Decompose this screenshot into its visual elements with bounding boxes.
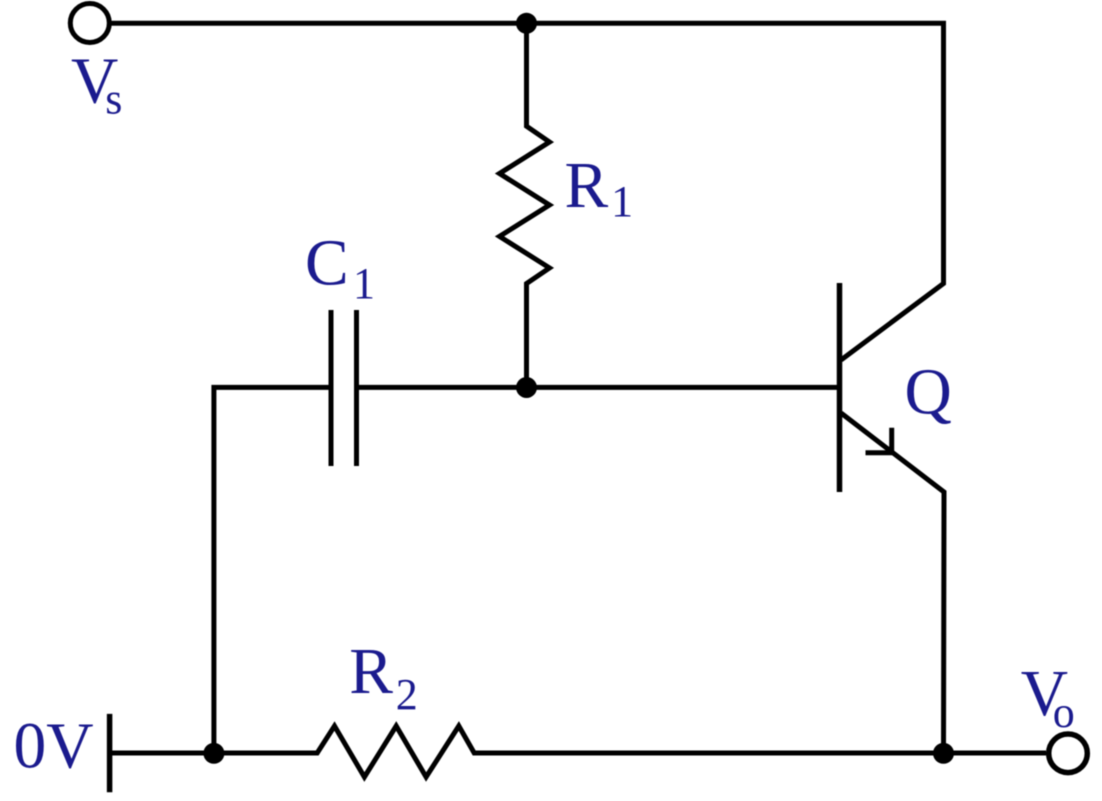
wire middle right (C1 right plate to Q base) bbox=[357, 385, 838, 390]
transistor Q emitter lead bbox=[841, 413, 944, 753]
wire bottom with resistor R2 bbox=[112, 726, 1046, 777]
ground terminal 0V bar bbox=[107, 714, 113, 792]
svg-text:o: o bbox=[1053, 688, 1075, 737]
label R1 bbox=[565, 150, 634, 226]
transistor Q base bar bbox=[837, 283, 843, 492]
svg-text:C: C bbox=[305, 228, 349, 300]
label Vo bbox=[1021, 658, 1075, 737]
junction dot bottom right (Vo node) bbox=[933, 743, 954, 764]
transistor Q collector lead bbox=[841, 23, 944, 360]
transistor Q emitter arrow bbox=[866, 428, 892, 453]
wire middle left (left vertical corner to C1 left plate) bbox=[214, 387, 331, 753]
svg-text:R: R bbox=[565, 150, 609, 222]
label R2 bbox=[349, 636, 417, 719]
label Vs bbox=[71, 45, 122, 123]
terminal Vo bbox=[1049, 734, 1088, 773]
svg-text:1: 1 bbox=[353, 259, 375, 308]
svg-text:R: R bbox=[349, 636, 393, 708]
wire top (Vs to collector corner) bbox=[112, 21, 947, 26]
capacitor C1 left plate bbox=[329, 310, 334, 466]
junction dot bottom left bbox=[203, 743, 224, 764]
label C1 bbox=[305, 228, 375, 309]
svg-text:Q: Q bbox=[905, 357, 952, 429]
capacitor C1 right plate bbox=[354, 310, 359, 466]
svg-text:0V: 0V bbox=[14, 711, 94, 783]
junction dot base node bbox=[516, 377, 537, 398]
svg-text:1: 1 bbox=[611, 177, 633, 226]
svg-text:2: 2 bbox=[396, 670, 418, 719]
junction dot top node bbox=[516, 13, 537, 34]
terminal Vs bbox=[70, 4, 109, 43]
svg-text:s: s bbox=[105, 75, 122, 124]
resistor R1 bbox=[500, 23, 550, 388]
